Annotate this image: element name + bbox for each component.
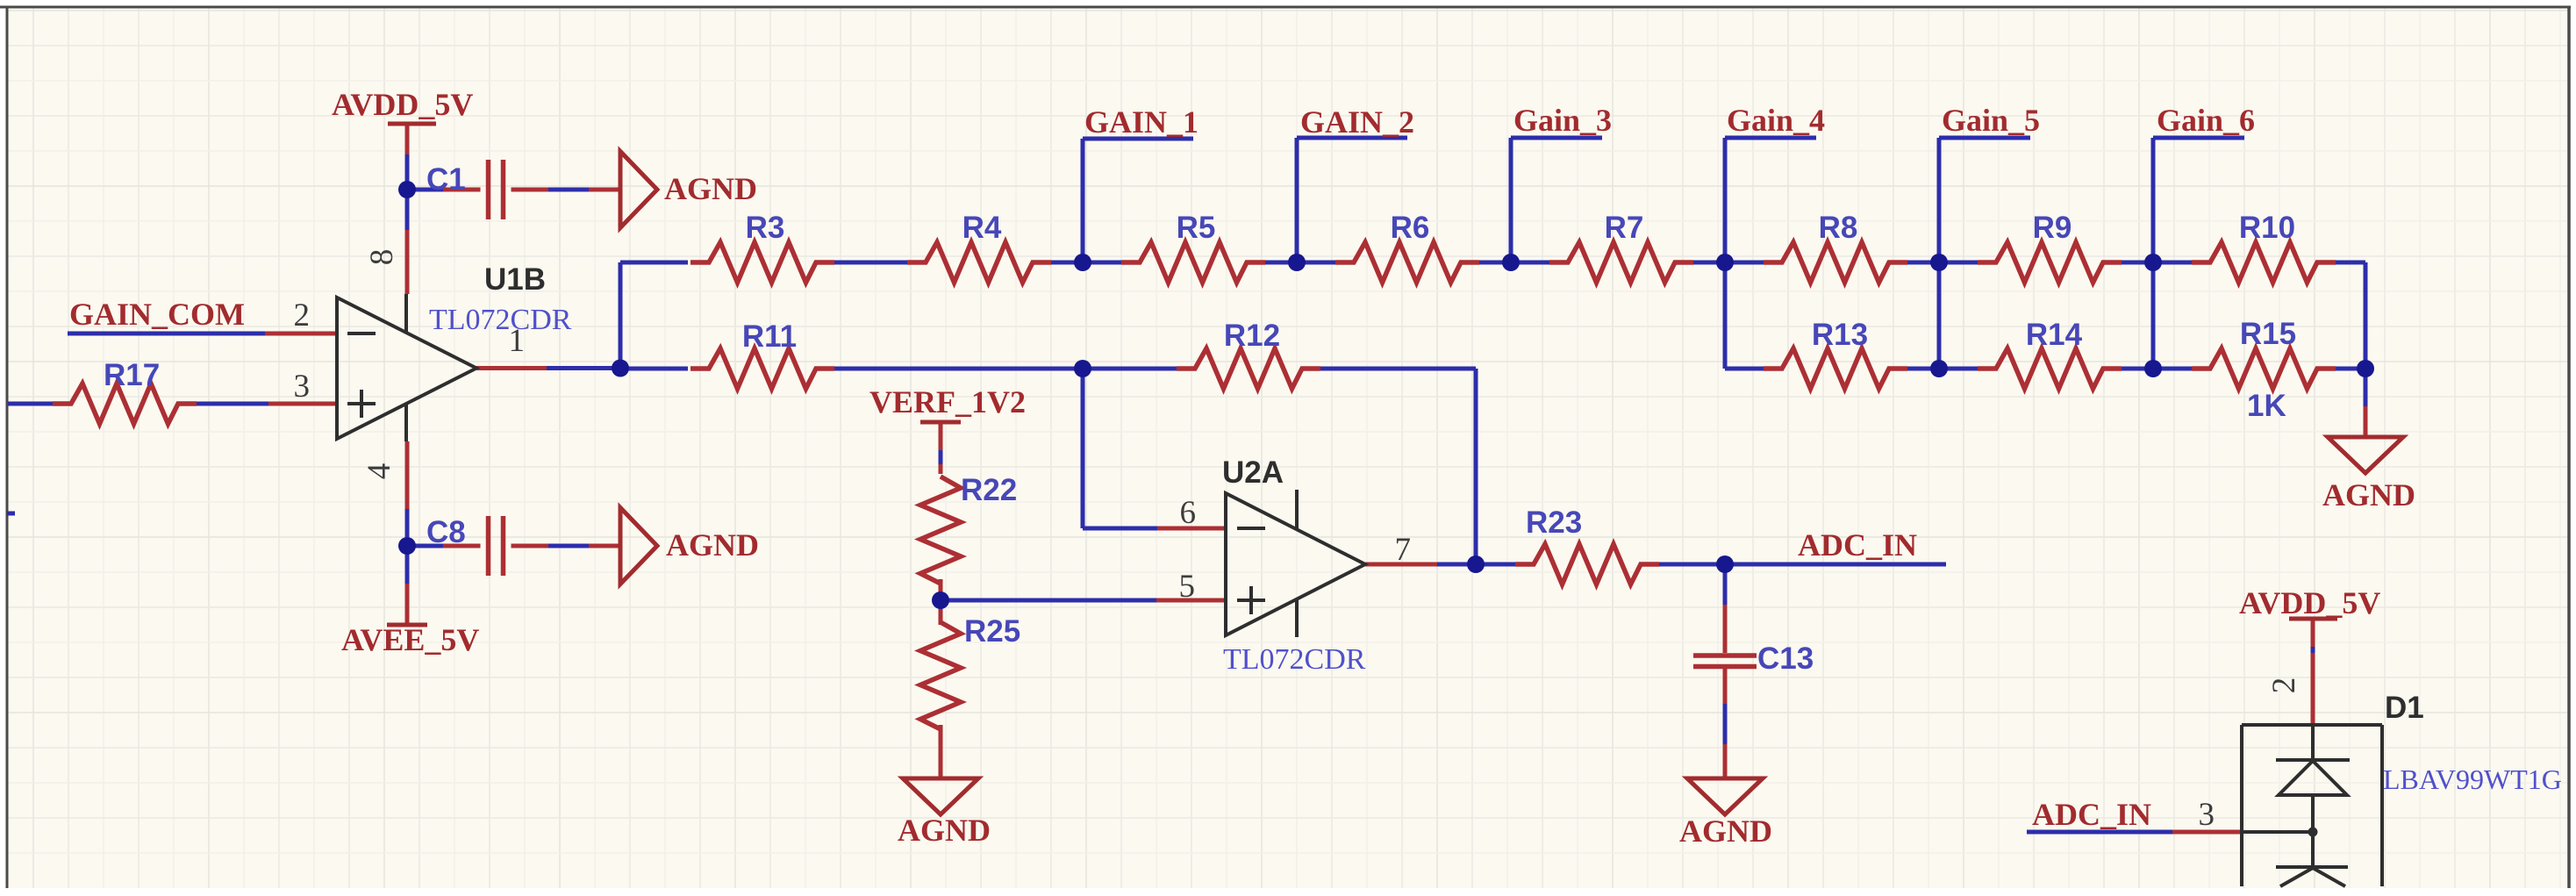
svg-text:5: 5 [1179,569,1196,605]
svg-text:U2A: U2A [1222,455,1284,490]
junction Gain_5 node [1930,254,1948,271]
wire R17 to U1B pin 3 [194,402,268,406]
svg-text:Gain_6: Gain_6 [2157,103,2255,138]
wire to R3 [620,261,688,265]
wire to C1 [407,188,443,192]
wire U1B pin 4 to AVEE_5V [405,509,410,584]
power stub VERF_1V2 [939,422,943,450]
wire R5 to R6 through GAIN_2 node [1263,261,1341,265]
pin 3 of U1B [268,402,337,406]
wire Gain_6 label stub [2153,136,2244,140]
svg-text:U1B: U1B [484,262,546,297]
wire R10 to right corner [2334,261,2365,265]
junction Gain_4 node [1716,254,1734,271]
svg-text:C1: C1 [426,162,466,197]
svg-text:VERF_1V2: VERF_1V2 [869,384,1026,419]
wire ADC_IN node down to C13 [1723,564,1728,605]
pin of R22 bottom [939,579,943,600]
resistor R13 [1764,348,1907,389]
wire Gain_4 label stub [1725,136,1816,140]
wire R14 to R15 [2120,367,2195,371]
op-amp U2A [1226,493,1365,635]
power bar AVEE_5V [387,623,427,627]
svg-text:R15: R15 [2240,317,2296,351]
wire R23 to ADC_IN [1657,563,1946,567]
pin 8 of U1B [405,230,410,294]
svg-text:AVDD_5V: AVDD_5V [2239,585,2380,620]
wire left edge to R17 [8,402,55,406]
svg-text:1: 1 [509,323,526,359]
wire output node up to R3 row [619,262,623,369]
resistor R12 [1177,348,1320,389]
wire R11 to R12 through node [833,367,1179,371]
diode D1 lower diode [2276,865,2348,869]
svg-text:R5: R5 [1177,211,1216,245]
svg-text:6: 6 [1180,495,1197,531]
sheet border right [2567,7,2571,888]
junction U1B output node [612,360,629,377]
wire into U2A pin 6 [1083,527,1157,531]
wire R3 to R4 [829,261,912,265]
junction R14/R15 node [2144,360,2162,377]
wire feedback down to U2A output [1474,369,1478,564]
svg-text:7: 7 [1395,532,1412,568]
resistor R10 [2192,242,2336,283]
svg-text:R9: R9 [2033,211,2072,245]
power stub AVEE_5V [405,584,410,625]
junction R11/R12 node [1074,360,1091,377]
wire U2A output to R23 [1437,563,1518,567]
svg-text:R4: R4 [962,211,1002,245]
svg-text:R17: R17 [104,358,160,392]
wire ADC_IN to D1 pin 3 [2027,830,2172,835]
stub C13 to AGND [1723,744,1728,778]
svg-text:R22: R22 [961,473,1017,507]
svg-text:R12: R12 [1224,319,1280,353]
svg-text:AGND: AGND [666,527,759,563]
wire Gain_4 corner to R13 [1725,367,1767,371]
wire C1 to AGND port [548,188,589,192]
svg-text:AGND: AGND [664,171,757,206]
wire to C8 [407,544,443,548]
wire Gain_3 label stub [1511,136,1602,140]
svg-text:AGND: AGND [2322,477,2415,513]
wire right corner down to R15 [2364,262,2368,369]
pin 7 of U2A [1365,563,1437,567]
pin 3 of D1 [2172,830,2242,835]
wire U1B output [547,366,620,370]
pin 4 of U1B [405,441,410,509]
svg-text:R10: R10 [2239,211,2295,245]
resistor R7 [1549,242,1693,283]
svg-text:LBAV99WT1G: LBAV99WT1G [2383,763,2562,795]
wire R12 node down to U2A pin 6 [1081,369,1085,528]
pin of C8 right [512,544,549,548]
pin of R22 top [939,464,943,474]
wire Gain_6 node down to R14/R15 [2151,262,2156,369]
pin of R25 bottom to AGND [939,725,943,778]
wire GAIN_1 label stub [1083,137,1193,141]
resistor R14 [1978,348,2122,389]
svg-text:4: 4 [361,463,397,480]
junction AVEE/C8 [398,537,416,555]
ground AGND port at C1 [620,152,657,228]
svg-text:R14: R14 [2026,318,2083,352]
resistor R23 [1515,544,1659,584]
node D1 pin3 junction [2308,828,2318,837]
resistor R8 [1764,242,1907,283]
svg-text:2: 2 [294,297,311,333]
power stub AVDD_5V at D1 [2311,619,2315,647]
junction GAIN_2 node [1288,254,1306,271]
power stub AVDD_5V [405,124,410,154]
capacitor C1 [486,160,491,219]
wire R15 to AGND node [2334,367,2365,371]
junction GAIN_3 node [1502,254,1520,271]
svg-text:AGND: AGND [898,813,991,848]
svg-text:R11: R11 [742,319,797,354]
junction R13/R14 node [1930,360,1948,377]
svg-text:Gain_4: Gain_4 [1727,103,1825,138]
wire Gain_4 stub [1723,138,1728,262]
resistor R3 [691,242,834,283]
diode D1 upper diode [2311,725,2315,760]
svg-text:AVEE_5V: AVEE_5V [341,622,479,657]
resistor R11 [691,348,834,389]
capacitor C8 [486,516,491,576]
wire Gain_5 stub [1937,138,1942,262]
wire AVDD_5V to U1B pin 8 [405,154,410,230]
sheet border left [6,7,9,888]
wire output node to R11 [620,367,688,371]
svg-text:R8: R8 [1819,211,1858,245]
junction divider node [932,591,949,609]
diode D1 body box [2242,723,2382,727]
resistor R22 [920,477,961,584]
svg-text:TL072CDR: TL072CDR [1223,643,1366,676]
svg-text:GAIN_2: GAIN_2 [1300,104,1414,140]
resistor R4 [907,242,1051,283]
svg-text:8: 8 [364,249,400,266]
wire GAIN_2 stub [1295,138,1299,262]
junction Gain_6 node [2144,254,2162,271]
wire AVDD_5V to D1 pin 2 [2311,647,2315,653]
svg-text:AGND: AGND [1679,814,1772,849]
resistor R25 [920,622,961,729]
svg-text:TL072CDR: TL072CDR [429,304,572,336]
power bar AVDD_5V at D1 [2289,617,2337,621]
wire R9 to R10 through Gain_6 node [2120,261,2197,265]
wire C8 to AGND port [548,544,589,548]
wire GAIN_2 label stub [1297,136,1407,140]
ground AGND below C13 [1687,778,1763,814]
wire R13 to R14 [1906,367,1981,371]
svg-text:2: 2 [2266,677,2302,694]
pin of C13 top [1723,605,1728,653]
pin 1 of U1B [476,366,547,370]
wire Gain_5 node down to R13/R14 [1937,262,1942,369]
stub R15 node to AGND [2364,406,2368,437]
wire C13 to AGND [1723,704,1728,744]
svg-text:ADC_IN: ADC_IN [2032,797,2151,832]
power bar VERF_1V2 [920,420,961,425]
svg-text:3: 3 [294,369,311,405]
svg-text:3: 3 [2199,797,2215,833]
svg-text:C8: C8 [426,515,466,549]
junction ADC_IN node [1716,556,1734,573]
svg-text:R13: R13 [1812,318,1868,352]
svg-text:C13: C13 [1757,642,1814,676]
svg-text:AVDD_5V: AVDD_5V [332,87,473,122]
wire GAIN_COM to U1B pin 2 [68,332,265,336]
stub into AGND port C1 [589,188,620,192]
wire GAIN_1 stub [1081,139,1085,262]
wire R8 to R9 through Gain_5 node [1906,261,1983,265]
svg-text:Gain_5: Gain_5 [1942,103,2040,138]
svg-text:ADC_IN: ADC_IN [1798,527,1917,563]
pin of C13 bottom [1723,667,1728,704]
svg-text:R7: R7 [1605,211,1644,245]
svg-text:GAIN_COM: GAIN_COM [69,297,245,332]
junction GAIN_1 node [1074,254,1091,271]
svg-text:GAIN_1: GAIN_1 [1084,104,1199,140]
resistor R5 [1121,242,1265,283]
wire R12 to feedback corner [1319,367,1476,371]
pin of C1 right [512,188,549,192]
op-amp U1B [337,297,476,439]
wire Gain_3 stub [1509,138,1513,262]
power bar AVDD_5V [388,122,436,126]
pin 6 of U2A [1157,527,1226,531]
stub into AGND port C8 [589,544,620,548]
wire stub left edge [7,512,15,516]
capacitor C13 [1693,653,1757,658]
svg-text:R25: R25 [964,614,1020,649]
junction U2A output node [1467,556,1485,573]
wire Gain_4 node down to R13 [1723,262,1728,369]
pin 5 of U2A [1156,599,1226,603]
wire R7 to R8 through Gain_4 node [1692,261,1769,265]
wire Gain_5 label stub [1939,136,2030,140]
ground AGND below R15 node [2328,437,2403,473]
sheet border top [0,6,2571,9]
pin of R25 top [939,600,943,625]
resistor R15 [2192,348,2336,389]
ground AGND below R25 [903,778,978,814]
svg-text:R23: R23 [1526,505,1582,540]
pin of C1 left [443,188,481,192]
resistor R6 [1335,242,1479,283]
svg-text:1K: 1K [2247,389,2286,423]
pin 2 of U1B [265,332,337,336]
svg-text:Gain_3: Gain_3 [1513,103,1612,138]
resistor R17 [53,383,197,424]
pin of C8 left [443,544,481,548]
junction AVDD/C1 [398,181,416,198]
junction R15/AGND node [2357,360,2374,377]
svg-text:D1: D1 [2385,691,2424,725]
wire Gain_6 stub [2151,138,2156,262]
wire divider node to U2A pin 5 [941,599,1156,603]
resistor R9 [1978,242,2122,283]
wire down to AGND [2364,369,2368,406]
wire VERF_1V2 to R22 [939,450,943,464]
ground AGND port at C8 [620,508,657,584]
wire R4 to R5 through GAIN_1 node [1046,261,1124,265]
wire R6 to R7 through GAIN_3 node [1478,261,1555,265]
pin 2 of D1 [2311,653,2315,725]
svg-text:R6: R6 [1391,211,1430,245]
svg-text:R3: R3 [746,211,785,245]
